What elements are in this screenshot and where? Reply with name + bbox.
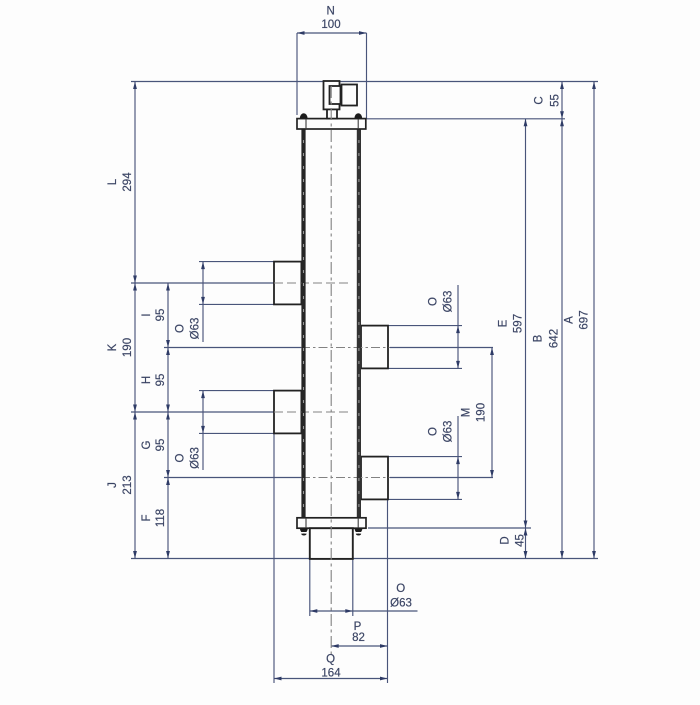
svg-text:O: O bbox=[175, 324, 187, 333]
svg-text:L: L bbox=[107, 178, 119, 185]
svg-text:G: G bbox=[141, 440, 153, 449]
svg-text:Q: Q bbox=[326, 654, 335, 666]
svg-text:A: A bbox=[564, 316, 576, 324]
svg-text:O: O bbox=[396, 583, 405, 595]
svg-text:E: E bbox=[498, 319, 510, 327]
svg-text:O: O bbox=[428, 427, 440, 436]
svg-text:55: 55 bbox=[550, 94, 562, 107]
svg-text:642: 642 bbox=[549, 329, 561, 348]
svg-text:O: O bbox=[428, 297, 440, 306]
svg-text:C: C bbox=[534, 96, 546, 104]
svg-text:190: 190 bbox=[122, 338, 134, 357]
svg-text:294: 294 bbox=[122, 172, 134, 192]
svg-text:697: 697 bbox=[579, 310, 591, 329]
svg-text:118: 118 bbox=[155, 509, 167, 527]
svg-text:H: H bbox=[141, 376, 153, 384]
svg-text:190: 190 bbox=[476, 403, 488, 422]
svg-text:Ø63: Ø63 bbox=[443, 291, 455, 313]
svg-text:95: 95 bbox=[155, 309, 167, 322]
svg-text:F: F bbox=[141, 514, 153, 521]
svg-text:O: O bbox=[175, 453, 187, 462]
svg-text:P: P bbox=[354, 621, 362, 633]
svg-text:K: K bbox=[107, 343, 119, 351]
svg-text:M: M bbox=[461, 408, 473, 418]
svg-text:100: 100 bbox=[321, 19, 340, 31]
svg-text:Ø63: Ø63 bbox=[443, 421, 455, 443]
svg-text:I: I bbox=[141, 313, 153, 316]
svg-text:Ø63: Ø63 bbox=[390, 598, 412, 610]
svg-text:J: J bbox=[107, 482, 119, 488]
svg-text:N: N bbox=[327, 6, 335, 18]
svg-text:597: 597 bbox=[513, 314, 525, 333]
svg-text:B: B bbox=[533, 334, 545, 342]
svg-text:Ø63: Ø63 bbox=[190, 447, 202, 469]
svg-text:95: 95 bbox=[155, 374, 167, 387]
svg-text:164: 164 bbox=[321, 668, 341, 680]
svg-text:45: 45 bbox=[515, 534, 527, 547]
svg-text:95: 95 bbox=[155, 439, 167, 452]
svg-text:82: 82 bbox=[352, 632, 365, 644]
svg-text:Ø63: Ø63 bbox=[190, 318, 202, 340]
svg-text:D: D bbox=[500, 536, 512, 544]
svg-text:213: 213 bbox=[122, 475, 134, 494]
